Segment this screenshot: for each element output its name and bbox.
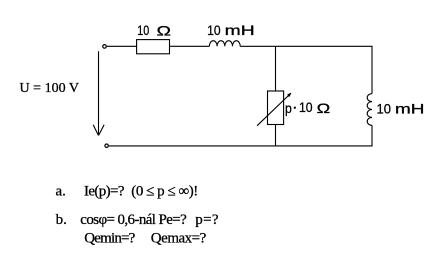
svg-text:a.: a. (56, 183, 66, 199)
svg-text:p: p (285, 100, 292, 116)
svg-text:10: 10 (299, 99, 313, 115)
svg-text:10: 10 (207, 22, 221, 38)
svg-text:b.: b. (56, 212, 67, 228)
svg-text:U = 100 V: U = 100 V (20, 81, 80, 96)
svg-text:Ie(p)=?: Ie(p)=? (84, 183, 125, 199)
svg-text:10: 10 (377, 101, 392, 117)
svg-text:mH: mH (395, 101, 425, 117)
svg-text:Qemin=?: Qemin=? (84, 231, 135, 247)
svg-text:Ω: Ω (157, 23, 172, 39)
svg-text:p=?: p=? (195, 212, 219, 228)
svg-text:Qemax=?: Qemax=? (151, 231, 207, 247)
svg-text:(0 ≤ p ≤ ∞)!: (0 ≤ p ≤ ∞)! (131, 183, 198, 199)
svg-text:cosφ= 0,6-nál Pe=?: cosφ= 0,6-nál Pe=? (80, 212, 187, 228)
svg-text:mH: mH (225, 22, 255, 38)
svg-text:Ω: Ω (317, 100, 331, 116)
svg-text:10: 10 (137, 22, 149, 38)
